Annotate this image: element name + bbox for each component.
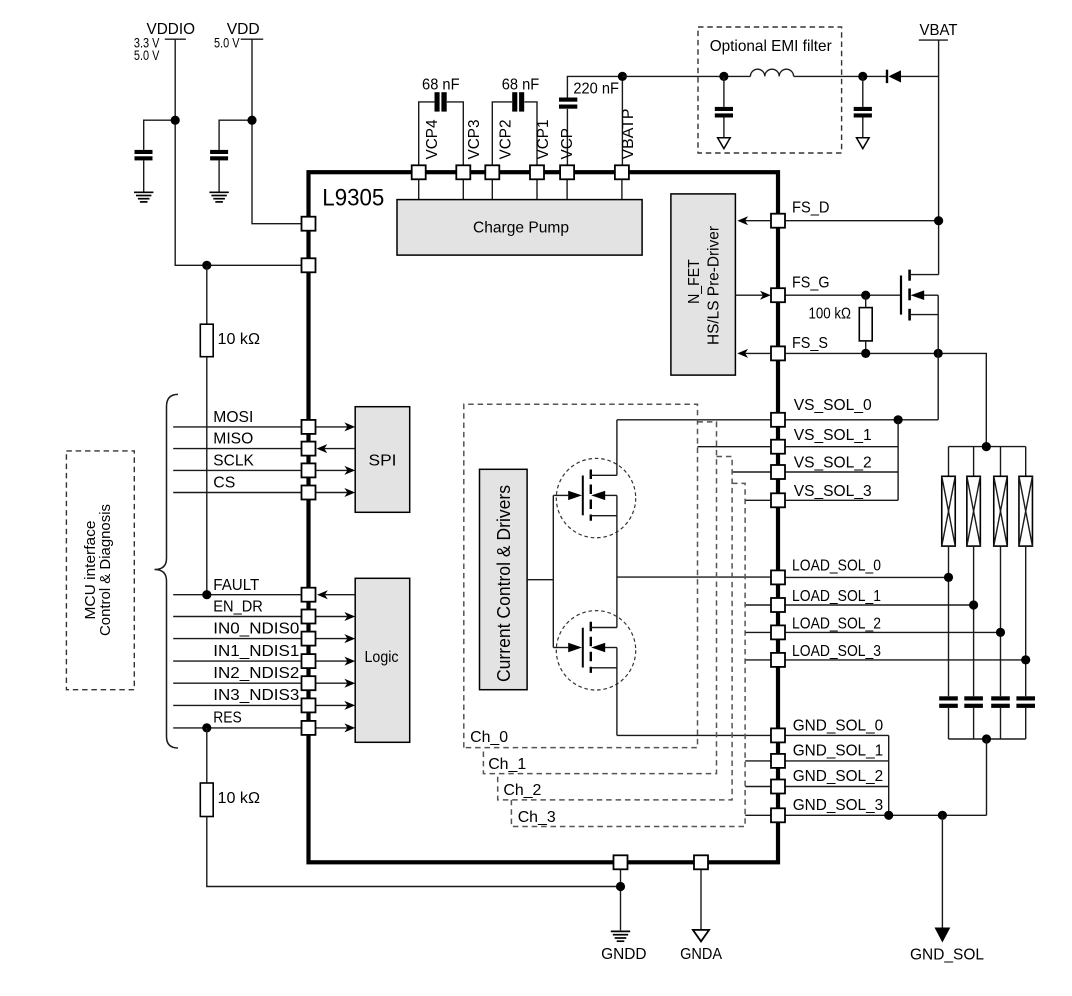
- Logic block: [355, 578, 410, 742]
- pin VS_SOL_3: [771, 493, 785, 507]
- wire LOAD_SOL_3 internal: [745, 659, 771, 661]
- svg-text:FS_D: FS_D: [792, 200, 830, 217]
- wire C3 to VCP3: [447, 102, 464, 166]
- wire VCP3 stub to Charge Pump: [462, 179, 464, 199]
- node EMI input: [719, 72, 728, 81]
- wire GNDD stem: [620, 869, 622, 930]
- resistor R2 10k: [200, 783, 213, 817]
- svg-text:SCLK: SCLK: [213, 453, 254, 470]
- svg-text:Ch_3: Ch_3: [518, 809, 556, 826]
- svg-text:LOAD_SOL_1: LOAD_SOL_1: [792, 588, 881, 605]
- node VDD branch: [247, 116, 256, 125]
- capacitor C2 (VDD decoupling): [210, 150, 228, 161]
- wire GND_SOL_2 internal: [745, 786, 771, 788]
- wire VDD cap branch: [219, 120, 252, 150]
- wire IN1_NDIS1: [173, 660, 301, 662]
- wire Q2 drain to VS_SOL_0: [616, 420, 618, 476]
- svg-text:IN3_NDIS3: IN3_NDIS3: [213, 687, 299, 704]
- wire IN2_NDIS2: [173, 682, 301, 684]
- svg-text:VS_SOL_3: VS_SOL_3: [794, 483, 872, 500]
- wire VCP4 stub to Charge Pump: [418, 179, 420, 199]
- wire VBATP vertical: [621, 76, 623, 165]
- capacitor C11 (solenoid 4): [1016, 696, 1035, 739]
- wire R3 top: [865, 295, 867, 307]
- svg-text:GNDD: GNDD: [601, 946, 647, 963]
- wire diode to VBAT line: [901, 75, 939, 77]
- pin IN2: [302, 676, 316, 690]
- node LOAD_SOL_2: [996, 628, 1005, 637]
- wire MOSI: [173, 426, 301, 428]
- wire VS_SOL_1 external: [785, 446, 898, 448]
- pin LOAD_SOL_1: [771, 598, 785, 612]
- arrow FS_G from pre-driver: [735, 291, 770, 300]
- node FS_G / R3: [861, 291, 870, 300]
- svg-text:VCP4: VCP4: [424, 119, 441, 159]
- wire VS_SOL_3 external: [785, 499, 898, 501]
- arrow CS into SPI: [316, 488, 356, 497]
- wire gate bus: [552, 495, 554, 647]
- resistor R1 10k: [200, 324, 213, 357]
- node FAULT / R1: [202, 590, 211, 599]
- node FS_S / Q1 source: [934, 349, 943, 358]
- svg-text:Ch_1: Ch_1: [488, 756, 526, 773]
- svg-text:Current Control & Drivers: Current Control & Drivers: [494, 485, 514, 682]
- svg-text:68 nF: 68 nF: [422, 76, 460, 93]
- svg-text:VS_SOL_2: VS_SOL_2: [794, 455, 872, 472]
- wire VBATP stub to Charge Pump: [621, 179, 623, 199]
- wire VS_SOL_2 internal: [732, 471, 771, 473]
- svg-text:MISO: MISO: [213, 431, 253, 448]
- channel box Ch_3: [511, 483, 745, 826]
- svg-text:LOAD_SOL_3: LOAD_SOL_3: [792, 643, 881, 660]
- svg-text:220 nF: 220 nF: [573, 80, 619, 97]
- wire R1 top: [206, 265, 208, 324]
- svg-text:GND_SOL_3: GND_SOL_3: [793, 797, 884, 814]
- svg-text:5.0 V: 5.0 V: [134, 47, 160, 63]
- pin VCP4: [412, 165, 426, 179]
- wire IN0_NDIS0: [173, 638, 301, 640]
- wire VDDIO cap branch: [144, 120, 176, 150]
- channel box Ch_2: [498, 457, 732, 800]
- GND_SOL terminal arrow: [935, 815, 951, 942]
- wire EN_DR: [173, 616, 301, 618]
- node bottom rail: [982, 734, 991, 743]
- wire LOAD_SOL_1 internal: [745, 604, 771, 606]
- svg-text:GNDA: GNDA: [680, 946, 722, 963]
- wire GND_SOL_1 external: [785, 760, 889, 762]
- pin EN_DR: [302, 610, 316, 624]
- pin GNDD: [614, 855, 628, 869]
- pin MOSI: [302, 420, 316, 434]
- node EMI output: [858, 72, 867, 81]
- wire VS_SOL_1 internal: [698, 446, 772, 448]
- solenoid load LS2: [967, 447, 981, 697]
- wire GNDA stem: [700, 869, 702, 930]
- svg-text:MOSI: MOSI: [213, 409, 253, 426]
- Charge Pump block: [397, 200, 642, 256]
- svg-text:VS_SOL_0: VS_SOL_0: [794, 397, 872, 414]
- svg-text:HS/LS Pre-Driver: HS/LS Pre-Driver: [706, 225, 723, 345]
- capacitor C1 (VDDIO decoupling): [135, 150, 153, 161]
- arrow IN2 into Logic: [316, 679, 356, 688]
- pin CS: [302, 486, 316, 500]
- svg-text:Logic: Logic: [365, 649, 399, 666]
- wire VCP2 to C4: [492, 102, 512, 166]
- wire RES: [173, 727, 301, 729]
- node VDDIO to R1: [202, 261, 211, 270]
- wire VS_SOL_2 external: [785, 471, 898, 473]
- pin LOAD_SOL_3: [771, 653, 785, 667]
- wire R3 bottom: [865, 341, 867, 354]
- wire LOAD_SOL_0 internal: [617, 576, 771, 578]
- resistor R3 100k: [859, 308, 872, 341]
- svg-text:IN1_NDIS1: IN1_NDIS1: [213, 643, 299, 660]
- svg-text:LOAD_SOL_2: LOAD_SOL_2: [792, 616, 881, 633]
- pin FS_G: [771, 288, 785, 302]
- svg-text:Charge Pump: Charge Pump: [473, 219, 569, 236]
- arrow IN3 into Logic: [316, 701, 356, 710]
- N_FET HS/LS Pre-Driver block U2: [671, 194, 736, 375]
- svg-text:N_FET: N_FET: [686, 259, 703, 304]
- wire GND_SOL bus: [888, 735, 890, 815]
- arrow FS_S into pre-driver: [737, 349, 771, 358]
- inductor L1: [750, 69, 793, 76]
- wire FS_G: [785, 294, 900, 296]
- arrow EN_DR into Logic: [316, 612, 356, 621]
- IC body L9305: [309, 172, 779, 862]
- svg-text:VBAT: VBAT: [920, 22, 958, 39]
- svg-text:GND_SOL_0: GND_SOL_0: [793, 718, 884, 735]
- wire LOAD_SOL_1 external: [785, 604, 974, 606]
- wire LOAD_SOL_0 external: [785, 576, 949, 578]
- pin VS_SOL_0: [771, 413, 785, 427]
- wire MISO: [173, 448, 301, 450]
- svg-text:68 nF: 68 nF: [502, 76, 540, 93]
- pin VS_SOL_2: [771, 465, 785, 479]
- svg-text:GND_SOL: GND_SOL: [910, 947, 984, 964]
- svg-text:100 kΩ: 100 kΩ: [809, 306, 852, 323]
- wire CS: [173, 492, 301, 494]
- ground AGND triangle (EMI left): [718, 138, 731, 149]
- svg-text:VCP2: VCP2: [497, 119, 514, 159]
- wire R2 top: [206, 728, 208, 783]
- svg-text:IN2_NDIS2: IN2_NDIS2: [213, 665, 299, 682]
- wire VCP4 to C3: [419, 102, 435, 166]
- svg-text:VBATP: VBATP: [620, 109, 637, 160]
- svg-text:Optional EMI filter: Optional EMI filter: [710, 38, 833, 55]
- svg-text:10 kΩ: 10 kΩ: [218, 790, 261, 807]
- svg-text:FS_S: FS_S: [792, 335, 828, 352]
- wire LOAD_SOL_2 internal: [745, 631, 771, 633]
- pin VCP: [560, 165, 574, 179]
- channel box Ch_0: [464, 404, 698, 747]
- capacitor C6 (EMI left): [715, 76, 733, 137]
- diode D1: [887, 70, 901, 83]
- channel box Ch_1: [483, 422, 716, 774]
- wire VS bus vertical: [897, 420, 899, 501]
- wire GND_SOL_3 internal: [745, 814, 771, 816]
- svg-text:VS_SOL_1: VS_SOL_1: [794, 427, 872, 444]
- wire L1 to EMI output node: [794, 75, 887, 77]
- pin LOAD_SOL_2: [771, 625, 785, 639]
- node VDDIO branch: [171, 116, 180, 125]
- transistor Q3 low-side (internal): [553, 611, 635, 690]
- svg-text:FS_G: FS_G: [792, 275, 830, 292]
- pin VDDIO: [302, 258, 316, 272]
- solenoid load LS3: [994, 447, 1008, 697]
- svg-text:LOAD_SOL_0: LOAD_SOL_0: [792, 558, 881, 575]
- wire GND_SOL_3 external: [785, 814, 987, 816]
- pin VBATP: [615, 165, 629, 179]
- wire VCP1 stub to Charge Pump: [536, 179, 538, 199]
- arrow IN1 into Logic: [316, 657, 356, 666]
- svg-text:Control & Diagnosis: Control & Diagnosis: [97, 504, 114, 636]
- svg-text:IN0_NDIS0: IN0_NDIS0: [213, 621, 299, 638]
- wire SCLK: [173, 469, 301, 471]
- wire bottom rail to GND_SOL net: [986, 739, 988, 815]
- node LOAD_SOL_3: [1021, 655, 1030, 664]
- ground GNDA triangle: [693, 930, 709, 942]
- pin IN0: [302, 632, 316, 646]
- pin GND_SOL_2: [771, 780, 785, 794]
- wire VCP2 stub to Charge Pump: [491, 179, 493, 199]
- wire driver output: [527, 579, 553, 581]
- ground AGND triangle (EMI right): [857, 138, 870, 149]
- arrow FAULT out of Logic: [317, 590, 355, 599]
- node GND bus: [884, 811, 893, 820]
- wire C5 to VBATP node: [567, 76, 622, 97]
- SPI block: [355, 407, 410, 513]
- wire GND_SOL_0 external: [785, 734, 889, 736]
- svg-text:FAULT: FAULT: [213, 577, 259, 594]
- MCU interface box: [66, 451, 134, 690]
- solenoid load LS4: [1019, 447, 1032, 697]
- wire GND_SOL_0 internal: [617, 734, 771, 736]
- svg-text:5.0 V: 5.0 V: [214, 35, 240, 51]
- svg-text:GND_SOL_1: GND_SOL_1: [793, 743, 884, 760]
- wire VDDIO vertical: [175, 39, 301, 265]
- wire R1 bottom to FAULT: [206, 357, 208, 595]
- wire LOAD_SOL_3 external: [785, 659, 1026, 661]
- wire GND_SOL_1 internal: [745, 760, 771, 762]
- pin FS_D: [771, 214, 785, 228]
- wire FAULT: [173, 594, 301, 596]
- wire VBAT vertical: [938, 40, 940, 275]
- arrow FS_D into pre-driver: [737, 216, 771, 225]
- svg-text:Ch_0: Ch_0: [470, 729, 508, 746]
- capacitor C3 68nF: [435, 92, 447, 111]
- node GNDD: [616, 882, 625, 891]
- brace MCU signals: [155, 394, 179, 748]
- solenoid bottom rail: [949, 738, 1026, 740]
- pin SCLK: [302, 463, 316, 477]
- wire LOAD_SOL_2 external: [785, 631, 1001, 633]
- pin VCP2: [485, 165, 499, 179]
- ground (C1): [134, 192, 153, 202]
- node RES / R2: [202, 723, 211, 732]
- svg-text:L9305: L9305: [322, 185, 384, 212]
- capacitor C8 (solenoid 1): [939, 696, 958, 739]
- svg-text:10 kΩ: 10 kΩ: [218, 331, 261, 348]
- transistor Q2 high-side (internal): [553, 458, 635, 537]
- arrow MOSI into SPI: [316, 422, 356, 431]
- svg-text:SPI: SPI: [369, 453, 397, 470]
- wire VS_SOL_3 internal: [745, 499, 771, 501]
- capacitor C9 (solenoid 2): [964, 696, 983, 739]
- pin IN3: [302, 698, 316, 712]
- wire Q3 source to GND_SOL_0: [616, 648, 618, 736]
- wire IN3_NDIS3: [173, 704, 301, 706]
- pin MISO: [302, 442, 316, 456]
- wire R2 bottom to GNDD: [207, 817, 621, 887]
- transistor Q1 external N-FET: [901, 270, 939, 420]
- node VS_SOL_0 bus: [894, 415, 903, 424]
- wire GND_SOL_2 external: [785, 786, 889, 788]
- arrow SCLK into SPI: [316, 466, 356, 475]
- wire VCP to C5: [566, 109, 568, 166]
- wire FS_D: [785, 220, 939, 222]
- node LOAD_SOL_0: [944, 573, 953, 582]
- pin VCP1: [530, 165, 544, 179]
- node GND_SOL arrow branch: [938, 811, 947, 820]
- svg-text:CS: CS: [213, 475, 235, 492]
- pin VS_SOL_1: [771, 440, 785, 454]
- VDD supply terminal: [214, 21, 263, 51]
- node FS_D / VBAT: [934, 216, 943, 225]
- node VBATP: [618, 72, 627, 81]
- Optional EMI filter box: [698, 27, 842, 153]
- node LOAD_SOL_1: [969, 600, 978, 609]
- wire VDD vertical: [252, 39, 302, 224]
- arrow RES into Logic: [316, 723, 356, 732]
- Current Control & Drivers block: [480, 469, 528, 689]
- wire VCP stub to Charge Pump: [566, 179, 568, 199]
- solenoid top rail: [949, 446, 1026, 448]
- ground GNDD: [611, 931, 630, 941]
- capacitor C10 (solenoid 3): [991, 696, 1010, 739]
- capacitor C4 68nF: [512, 92, 524, 111]
- wire VS_SOL_0 internal: [617, 419, 771, 421]
- svg-text:VCP: VCP: [559, 128, 576, 160]
- pin GNDA: [694, 855, 708, 869]
- wire C1 to ground: [143, 160, 145, 191]
- wire VBATP node to EMI filter: [622, 75, 750, 77]
- capacitor C5 220nF: [559, 98, 577, 109]
- arrow IN0 into Logic: [316, 634, 356, 643]
- solenoid load LS1: [942, 447, 956, 697]
- svg-text:GND_SOL_2: GND_SOL_2: [793, 768, 884, 785]
- VBAT supply terminal: [919, 22, 958, 40]
- pin VDD: [302, 217, 316, 231]
- wire C4 to VCP1: [524, 102, 537, 166]
- capacitor C7 (EMI right): [854, 76, 872, 137]
- wire Q2 source to LOAD / Q3 drain: [616, 495, 618, 627]
- pin GND_SOL_0: [771, 728, 785, 742]
- pin IN1: [302, 654, 316, 668]
- ground (C2): [209, 192, 228, 202]
- pin FS_S: [771, 346, 785, 360]
- node solenoid feed: [982, 442, 991, 451]
- wire C2 to ground: [218, 160, 220, 191]
- pin VCP3: [456, 165, 470, 179]
- wire VS_SOL_0 external: [785, 419, 938, 421]
- arrow MISO out of SPI: [317, 444, 356, 453]
- pin LOAD_SOL_0: [771, 570, 785, 584]
- svg-text:VCP1: VCP1: [535, 119, 552, 159]
- pin FAULT: [302, 588, 316, 602]
- svg-text:RES: RES: [213, 709, 242, 726]
- pin GND_SOL_1: [771, 754, 785, 768]
- node FS_S / R3: [861, 349, 870, 358]
- svg-text:VCP3: VCP3: [466, 119, 483, 159]
- wire FS_S: [785, 353, 986, 446]
- svg-text:EN_DR: EN_DR: [213, 598, 262, 615]
- svg-text:Ch_2: Ch_2: [503, 782, 541, 799]
- pin GND_SOL_3: [771, 808, 785, 822]
- VDDIO supply terminal: [134, 21, 195, 63]
- pin RES: [302, 721, 316, 735]
